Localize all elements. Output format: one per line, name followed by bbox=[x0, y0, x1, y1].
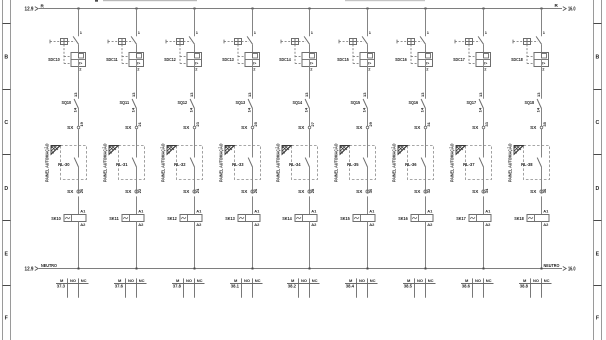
relay contact RL-31 bbox=[132, 158, 136, 167]
svg-text:35: 35 bbox=[542, 121, 547, 126]
svg-text:SDC14: SDC14 bbox=[279, 57, 291, 62]
label RL-30 bbox=[58, 162, 70, 167]
svg-text:SK12: SK12 bbox=[167, 216, 177, 221]
svg-text:14: 14 bbox=[189, 107, 194, 112]
panel boundary PAINEL AUTOMACAO column RL-38 bbox=[506, 143, 549, 182]
wire SK17 to bus NEUTRO bbox=[483, 222, 485, 269]
pin 1 of SDC10 bbox=[80, 30, 83, 35]
label SDC13 bbox=[222, 57, 234, 62]
svg-text:14: 14 bbox=[362, 107, 367, 112]
svg-text:27: 27 bbox=[310, 121, 315, 126]
limit switch SQ14 bbox=[305, 99, 309, 109]
pin A2 of SK13 bbox=[254, 222, 260, 227]
bus NEUTRO label left bbox=[41, 263, 57, 269]
sheet frame left border bbox=[3, 0, 11, 340]
node SX terminal upper column SK11 bbox=[125, 125, 138, 130]
svg-text:A1: A1 bbox=[311, 208, 317, 213]
junction dot on bus R column SDC11 bbox=[136, 8, 138, 10]
svg-text:13: 13 bbox=[73, 92, 78, 97]
label RL-31 bbox=[116, 162, 128, 167]
svg-text:12.9: 12.9 bbox=[25, 266, 34, 272]
svg-text:A2: A2 bbox=[196, 222, 202, 227]
pin 13 of SQ12 bbox=[189, 92, 194, 97]
wire number 26 bbox=[253, 188, 258, 193]
label RL-34 bbox=[289, 162, 301, 167]
right margin row letter D bbox=[596, 186, 600, 192]
contact cross reference table SK16 bbox=[403, 278, 436, 298]
svg-text:38.8: 38.8 bbox=[520, 284, 529, 289]
svg-text:SK13: SK13 bbox=[225, 216, 235, 221]
left margin row letter F bbox=[5, 316, 8, 322]
pin A1 of SK14 bbox=[311, 208, 317, 213]
right margin row letter C bbox=[596, 120, 600, 126]
node SX terminal upper column SK16 bbox=[414, 125, 427, 130]
wire number 20 bbox=[79, 188, 84, 193]
pin A1 of SK15 bbox=[369, 208, 375, 213]
limit switch SQ13 bbox=[248, 99, 252, 109]
pin 14 of SQ15 bbox=[362, 107, 367, 112]
wire SQ16 to node SX bbox=[425, 109, 427, 127]
wire SQ15 to node SX bbox=[367, 109, 369, 127]
svg-text:NC: NC bbox=[428, 278, 434, 283]
contact usage reference 37.6 of SK11 bbox=[115, 284, 124, 289]
node SX terminal lower column SK16 bbox=[414, 189, 427, 194]
svg-text:PAINEL AUTOMAÇÃO: PAINEL AUTOMAÇÃO bbox=[217, 143, 223, 182]
left margin row letter B bbox=[4, 55, 8, 61]
node SX terminal lower column SK11 bbox=[125, 189, 138, 194]
wire node SX to panel RL-36 bbox=[425, 129, 427, 158]
svg-text:NC: NC bbox=[312, 278, 318, 283]
label RL-33 bbox=[232, 162, 244, 167]
svg-text:A1: A1 bbox=[369, 208, 375, 213]
svg-text:PAINEL AUTOMAÇÃO: PAINEL AUTOMAÇÃO bbox=[274, 143, 280, 182]
limit switch SQ11 bbox=[132, 99, 136, 109]
svg-text:1: 1 bbox=[80, 30, 83, 35]
wire RL-32 to node SX lower bbox=[194, 167, 196, 194]
pin 14 of SQ10 bbox=[73, 107, 78, 112]
svg-text:1: 1 bbox=[138, 30, 141, 35]
bus R wire bbox=[39, 8, 562, 10]
contact usage reference 38.8 of SK18 bbox=[520, 284, 529, 289]
svg-text:SQ10: SQ10 bbox=[62, 100, 72, 105]
right margin row tick bbox=[594, 285, 602, 287]
relay contact RL-38 bbox=[537, 158, 541, 167]
panel boundary PAINEL AUTOMACAO column RL-32 bbox=[159, 143, 202, 182]
pin 2 of SDC12 bbox=[195, 66, 198, 71]
svg-text:PAINEL AUTOMAÇÃO: PAINEL AUTOMAÇÃO bbox=[448, 143, 454, 182]
svg-text:1: 1 bbox=[485, 30, 488, 35]
relay coil SK17 bbox=[469, 215, 491, 222]
svg-text:1: 1 bbox=[311, 30, 314, 35]
wire number 19 bbox=[79, 121, 84, 126]
panel boundary PAINEL AUTOMACAO column RL-30 bbox=[43, 143, 86, 182]
wire from bus R to breaker SDC16 bbox=[425, 9, 427, 37]
svg-text:SQ14: SQ14 bbox=[293, 100, 303, 105]
svg-text:RL-30: RL-30 bbox=[58, 162, 70, 167]
wire SQ10 to node SX bbox=[78, 109, 80, 127]
node SX terminal upper column SK15 bbox=[356, 125, 369, 130]
svg-text:I>: I> bbox=[195, 61, 198, 65]
bus R label left bbox=[41, 3, 45, 8]
contact cross reference table SK11 bbox=[114, 278, 147, 298]
junction dot on bus NEUTRO column SK14 bbox=[309, 268, 311, 270]
svg-text:NO: NO bbox=[475, 278, 481, 283]
svg-text:M: M bbox=[349, 278, 353, 283]
svg-text:R: R bbox=[41, 3, 45, 8]
svg-text:NO: NO bbox=[186, 278, 192, 283]
pin 14 of SQ14 bbox=[304, 107, 309, 112]
pin A2 of SK15 bbox=[369, 222, 375, 227]
pin 2 of SDC11 bbox=[137, 66, 140, 71]
svg-text:B: B bbox=[596, 55, 600, 61]
pin 2 of SDC14 bbox=[310, 66, 313, 71]
wire SDC12 to SQ12 bbox=[194, 67, 196, 99]
pin 14 of SQ12 bbox=[189, 107, 194, 112]
svg-text:A2: A2 bbox=[311, 222, 317, 227]
label SK17 bbox=[456, 216, 466, 221]
wire SQ12 to node SX bbox=[194, 109, 196, 127]
svg-text:SDC16: SDC16 bbox=[395, 57, 407, 62]
wire SDC15 to SQ15 bbox=[367, 67, 369, 99]
left margin row letter D bbox=[4, 186, 8, 192]
pin 2 of SDC15 bbox=[368, 66, 371, 71]
svg-text:SDC10: SDC10 bbox=[48, 57, 60, 62]
circuit breaker SDC12 bbox=[166, 36, 202, 66]
wire from bus R to breaker SDC10 bbox=[78, 9, 80, 37]
label SQ12 bbox=[178, 100, 188, 105]
right margin row letter B bbox=[596, 55, 600, 61]
right margin row letter F bbox=[596, 316, 599, 322]
svg-text:21: 21 bbox=[137, 121, 142, 126]
svg-text:PAINEL AUTOMAÇÃO: PAINEL AUTOMAÇÃO bbox=[159, 143, 165, 182]
junction dot on bus R column SDC17 bbox=[483, 8, 485, 10]
left margin row tick bbox=[3, 89, 11, 91]
svg-text:SX: SX bbox=[298, 189, 305, 194]
wire node SX to coil SK14 bbox=[309, 196, 311, 214]
circuit breaker SDC11 bbox=[108, 36, 144, 66]
label SDC15 bbox=[337, 57, 349, 62]
left margin row letter C bbox=[4, 120, 8, 126]
wire SK16 to bus NEUTRO bbox=[425, 222, 427, 269]
svg-text:NC: NC bbox=[544, 278, 550, 283]
wire node SX to coil SK18 bbox=[541, 196, 543, 214]
svg-text:SX: SX bbox=[125, 189, 132, 194]
svg-text:SQ12: SQ12 bbox=[178, 100, 188, 105]
label SDC12 bbox=[164, 57, 176, 62]
svg-text:PAINEL AUTOMAÇÃO: PAINEL AUTOMAÇÃO bbox=[506, 143, 512, 182]
svg-text:SX: SX bbox=[67, 125, 74, 130]
pin A2 of SK14 bbox=[311, 222, 317, 227]
wire node SX to panel RL-31 bbox=[136, 129, 138, 158]
svg-text:RL-36: RL-36 bbox=[405, 162, 417, 167]
wire SK15 to bus NEUTRO bbox=[367, 222, 369, 269]
relay contact RL-36 bbox=[421, 158, 425, 167]
contact cross reference table SK12 bbox=[172, 278, 205, 298]
circuit breaker SDC13 bbox=[224, 36, 260, 66]
relay coil SK14 bbox=[295, 215, 317, 222]
label SK14 bbox=[282, 216, 292, 221]
pin 14 of SQ11 bbox=[131, 107, 136, 112]
label SQ18 bbox=[525, 100, 535, 105]
svg-text:I>: I> bbox=[484, 61, 487, 65]
svg-text:SDC18: SDC18 bbox=[511, 57, 523, 62]
wire number 23 bbox=[195, 121, 200, 126]
svg-text:NO: NO bbox=[70, 278, 76, 283]
svg-text:NC: NC bbox=[370, 278, 376, 283]
pin 14 of SQ17 bbox=[478, 107, 483, 112]
pin A2 of SK16 bbox=[427, 222, 433, 227]
label SDC11 bbox=[106, 57, 118, 62]
svg-text:1: 1 bbox=[427, 30, 430, 35]
wire number 27 bbox=[310, 121, 315, 126]
svg-text:D: D bbox=[596, 186, 600, 192]
wire SK18 to bus NEUTRO bbox=[541, 222, 543, 269]
svg-text:SK15: SK15 bbox=[340, 216, 350, 221]
svg-text:RL-32: RL-32 bbox=[174, 162, 186, 167]
limit switch SQ12 bbox=[190, 99, 194, 109]
svg-text:13: 13 bbox=[131, 92, 136, 97]
wire node SX to coil SK15 bbox=[367, 196, 369, 214]
junction dot on bus NEUTRO column SK10 bbox=[78, 268, 80, 270]
pin 2 of SDC16 bbox=[426, 66, 429, 71]
label SDC17 bbox=[453, 57, 465, 62]
label SDC16 bbox=[395, 57, 407, 62]
wire SDC10 to SQ10 bbox=[78, 67, 80, 99]
svg-text:SX: SX bbox=[472, 125, 479, 130]
svg-text:M: M bbox=[523, 278, 527, 283]
svg-text:PAINEL AUTOMAÇÃO: PAINEL AUTOMAÇÃO bbox=[43, 143, 49, 182]
svg-text:NC: NC bbox=[81, 278, 87, 283]
junction dot on bus NEUTRO column SK11 bbox=[136, 268, 138, 270]
wire SK11 to bus NEUTRO bbox=[136, 222, 138, 269]
net NEUTRO incoming reference 12.9 bbox=[25, 266, 39, 272]
svg-text:SK11: SK11 bbox=[109, 216, 119, 221]
svg-text:25: 25 bbox=[253, 121, 258, 126]
node SX terminal upper column SK10 bbox=[67, 125, 80, 130]
wire RL-36 to node SX lower bbox=[425, 167, 427, 194]
svg-text:PAINEL AUTOMAÇÃO: PAINEL AUTOMAÇÃO bbox=[390, 143, 396, 182]
contact usage reference 38.6 of SK17 bbox=[462, 284, 471, 289]
svg-text:13: 13 bbox=[189, 92, 194, 97]
left margin row tick bbox=[3, 154, 11, 156]
svg-text:NO: NO bbox=[417, 278, 423, 283]
svg-text:16.0: 16.0 bbox=[568, 7, 576, 13]
svg-text:SK10: SK10 bbox=[51, 216, 61, 221]
left margin row tick bbox=[3, 23, 11, 25]
svg-text:1: 1 bbox=[543, 30, 546, 35]
circuit breaker SDC14 bbox=[281, 36, 317, 66]
wire node SX to panel RL-33 bbox=[252, 129, 254, 158]
label RL-37 bbox=[463, 162, 475, 167]
label SK11 bbox=[109, 216, 119, 221]
pin 1 of SDC16 bbox=[427, 30, 430, 35]
svg-text:SK16: SK16 bbox=[398, 216, 408, 221]
svg-text:RL-35: RL-35 bbox=[347, 162, 359, 167]
svg-text:SK14: SK14 bbox=[282, 216, 292, 221]
svg-text:NEUTRO: NEUTRO bbox=[544, 263, 560, 269]
svg-text:29: 29 bbox=[368, 121, 373, 126]
svg-text:PAINEL AUTOMAÇÃO: PAINEL AUTOMAÇÃO bbox=[332, 143, 338, 182]
pin A2 of SK18 bbox=[543, 222, 549, 227]
wire SQ18 to node SX bbox=[541, 109, 543, 127]
svg-text:SK18: SK18 bbox=[514, 216, 524, 221]
pin A1 of SK10 bbox=[80, 208, 86, 213]
svg-text:SX: SX bbox=[530, 125, 537, 130]
label RL-38 bbox=[521, 162, 533, 167]
pin A2 of SK11 bbox=[138, 222, 144, 227]
contact cross reference table SK18 bbox=[519, 278, 552, 298]
wire SK14 to bus NEUTRO bbox=[309, 222, 311, 269]
junction dot on bus R column SDC16 bbox=[425, 8, 427, 10]
svg-text:2: 2 bbox=[310, 66, 313, 71]
wire node SX to panel RL-32 bbox=[194, 129, 196, 158]
right margin row tick bbox=[594, 89, 602, 91]
svg-text:13: 13 bbox=[304, 92, 309, 97]
svg-text:13: 13 bbox=[478, 92, 483, 97]
svg-text:2: 2 bbox=[484, 66, 487, 71]
svg-text:2: 2 bbox=[368, 66, 371, 71]
svg-text:M: M bbox=[407, 278, 411, 283]
wire node SX to panel RL-37 bbox=[483, 129, 485, 158]
svg-text:RL-37: RL-37 bbox=[463, 162, 475, 167]
svg-text:NO: NO bbox=[244, 278, 250, 283]
label SK13 bbox=[225, 216, 235, 221]
wire number 31 bbox=[426, 121, 431, 126]
left margin row letter E bbox=[4, 252, 8, 258]
wire SDC18 to SQ18 bbox=[541, 67, 543, 99]
svg-text:14: 14 bbox=[131, 107, 136, 112]
svg-text:SDC17: SDC17 bbox=[453, 57, 465, 62]
left margin row tick bbox=[3, 220, 11, 222]
svg-text:I>: I> bbox=[79, 61, 82, 65]
svg-text:A2: A2 bbox=[485, 222, 491, 227]
contact cross reference table SK17 bbox=[461, 278, 494, 298]
svg-text:NEUTRO: NEUTRO bbox=[41, 263, 57, 269]
svg-text:SDC12: SDC12 bbox=[164, 57, 176, 62]
pin A2 of SK10 bbox=[80, 222, 86, 227]
wire SDC14 to SQ14 bbox=[309, 67, 311, 99]
svg-text:SQ13: SQ13 bbox=[236, 100, 246, 105]
wire SQ13 to node SX bbox=[252, 109, 254, 127]
relay coil SK12 bbox=[180, 215, 202, 222]
wire SDC13 to SQ13 bbox=[252, 67, 254, 99]
svg-text:SQ18: SQ18 bbox=[525, 100, 535, 105]
label SQ16 bbox=[409, 100, 419, 105]
svg-text:I>: I> bbox=[253, 61, 256, 65]
contact cross reference table SK10 bbox=[56, 278, 89, 298]
svg-text:SQ17: SQ17 bbox=[467, 100, 477, 105]
svg-text:M: M bbox=[176, 278, 180, 283]
svg-text:38.4: 38.4 bbox=[346, 284, 355, 289]
wire node SX to panel RL-35 bbox=[367, 129, 369, 158]
wire number 25 bbox=[253, 121, 258, 126]
relay coil SK10 bbox=[64, 215, 86, 222]
wire RL-31 to node SX lower bbox=[136, 167, 138, 194]
sheet frame right border bbox=[594, 0, 602, 340]
svg-text:I>: I> bbox=[368, 61, 371, 65]
svg-text:SQ15: SQ15 bbox=[351, 100, 361, 105]
svg-text:I>: I> bbox=[137, 61, 140, 65]
svg-text:38.6: 38.6 bbox=[462, 284, 471, 289]
svg-text:SX: SX bbox=[356, 125, 363, 130]
right margin row tick bbox=[594, 154, 602, 156]
svg-text:A1: A1 bbox=[138, 208, 144, 213]
junction dot on bus R column SDC12 bbox=[194, 8, 196, 10]
label SQ14 bbox=[293, 100, 303, 105]
svg-text:23: 23 bbox=[195, 121, 200, 126]
wire node SX to coil SK10 bbox=[78, 196, 80, 214]
pin A1 of SK18 bbox=[543, 208, 549, 213]
svg-text:RL-34: RL-34 bbox=[289, 162, 301, 167]
svg-text:RL-33: RL-33 bbox=[232, 162, 244, 167]
wire from bus R to breaker SDC14 bbox=[309, 9, 311, 37]
contact usage reference 38.1 of SK13 bbox=[231, 284, 240, 289]
wire number 34 bbox=[484, 188, 489, 193]
pin A1 of SK13 bbox=[254, 208, 260, 213]
svg-text:13: 13 bbox=[536, 92, 541, 97]
svg-text:2: 2 bbox=[426, 66, 429, 71]
svg-text:2: 2 bbox=[79, 66, 82, 71]
svg-text:B: B bbox=[4, 55, 8, 61]
svg-text:PAINEL AUTOMAÇÃO: PAINEL AUTOMAÇÃO bbox=[101, 143, 107, 182]
svg-text:I>: I> bbox=[542, 61, 545, 65]
wire SK10 to bus NEUTRO bbox=[78, 222, 80, 269]
svg-text:14: 14 bbox=[73, 107, 78, 112]
contact usage reference 38.5 of SK16 bbox=[404, 284, 413, 289]
limit switch SQ10 bbox=[74, 99, 78, 109]
pin 13 of SQ15 bbox=[362, 92, 367, 97]
pin A1 of SK16 bbox=[427, 208, 433, 213]
node SX terminal upper column SK17 bbox=[472, 125, 485, 130]
svg-text:SX: SX bbox=[67, 189, 74, 194]
panel boundary PAINEL AUTOMACAO column RL-33 bbox=[217, 143, 260, 182]
label SK10 bbox=[51, 216, 61, 221]
pin 13 of SQ11 bbox=[131, 92, 136, 97]
pin 1 of SDC17 bbox=[485, 30, 488, 35]
label SDC14 bbox=[279, 57, 291, 62]
wire number 22 bbox=[137, 188, 142, 193]
wire node SX to panel RL-38 bbox=[541, 129, 543, 158]
label SQ13 bbox=[236, 100, 246, 105]
panel boundary PAINEL AUTOMACAO column RL-35 bbox=[332, 143, 375, 182]
svg-text:I>: I> bbox=[426, 61, 429, 65]
svg-text:A1: A1 bbox=[485, 208, 491, 213]
wire RL-37 to node SX lower bbox=[483, 167, 485, 194]
svg-text:14: 14 bbox=[304, 107, 309, 112]
pin 1 of SDC13 bbox=[254, 30, 257, 35]
bus R label right bbox=[555, 3, 559, 8]
wire RL-35 to node SX lower bbox=[367, 167, 369, 194]
svg-text:D: D bbox=[4, 186, 8, 192]
pin 1 of SDC18 bbox=[543, 30, 546, 35]
node SX terminal lower column SK15 bbox=[356, 189, 369, 194]
svg-text:C: C bbox=[596, 120, 600, 126]
relay coil SK11 bbox=[122, 215, 144, 222]
net R outgoing reference 16.0 bbox=[563, 7, 576, 13]
wire number 24 bbox=[195, 188, 200, 193]
svg-text:M: M bbox=[291, 278, 295, 283]
pin 14 of SQ13 bbox=[247, 107, 252, 112]
svg-text:A1: A1 bbox=[80, 208, 86, 213]
svg-text:NO: NO bbox=[128, 278, 134, 283]
wire SDC16 to SQ16 bbox=[425, 67, 427, 99]
pin 2 of SDC17 bbox=[484, 66, 487, 71]
svg-text:F: F bbox=[5, 316, 8, 322]
label SK12 bbox=[167, 216, 177, 221]
net R incoming reference 12.9 bbox=[25, 7, 39, 13]
svg-text:NC: NC bbox=[255, 278, 261, 283]
node SX terminal lower column SK18 bbox=[530, 189, 543, 194]
